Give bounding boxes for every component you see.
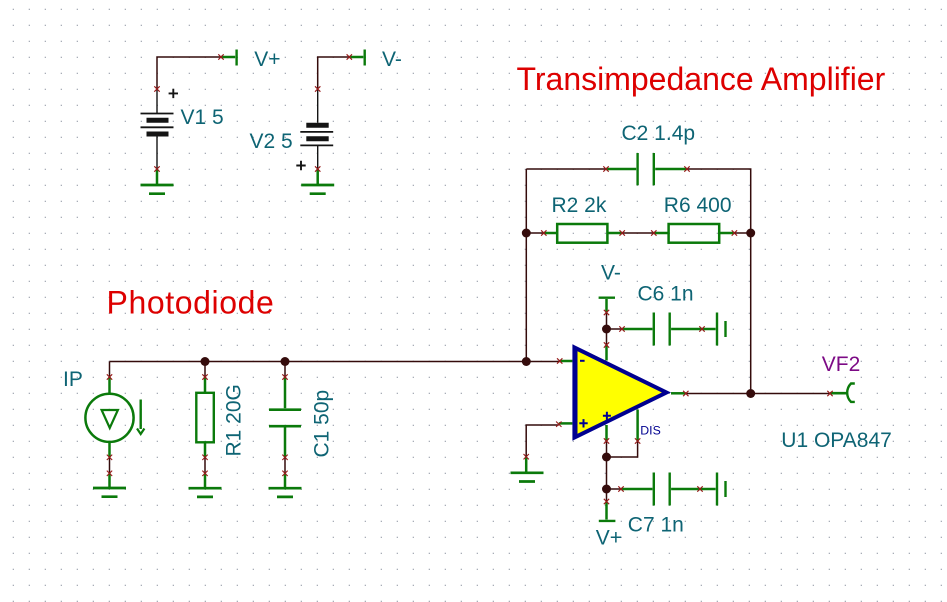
svg-text:IP: IP [63, 368, 83, 391]
svg-text:V2 5: V2 5 [250, 130, 293, 153]
svg-text:V+: V+ [596, 526, 622, 549]
svg-text:V1 5: V1 5 [181, 106, 224, 129]
svg-text:VF2: VF2 [822, 353, 861, 376]
svg-text:R1 20G: R1 20G [223, 384, 246, 456]
svg-text:V+: V+ [254, 48, 280, 71]
svg-text:C7 1n: C7 1n [628, 514, 684, 537]
svg-text:C1 50p: C1 50p [311, 390, 334, 458]
svg-text:R6 400: R6 400 [664, 194, 732, 217]
svg-text:R2 2k: R2 2k [552, 194, 607, 217]
svg-text:V-: V- [382, 48, 402, 71]
svg-text:Transimpedance Amplifier: Transimpedance Amplifier [517, 61, 886, 97]
svg-text:Photodiode: Photodiode [107, 285, 275, 321]
svg-text:V-: V- [601, 262, 621, 285]
svg-text:U1 OPA847: U1 OPA847 [781, 429, 892, 452]
svg-text:DIS: DIS [640, 424, 661, 438]
svg-text:C2 1.4p: C2 1.4p [622, 122, 696, 145]
svg-text:C6 1n: C6 1n [638, 283, 694, 306]
